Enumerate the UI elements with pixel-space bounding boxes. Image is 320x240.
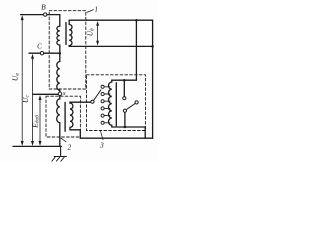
wire upper contact lead xyxy=(123,80,125,96)
wire lower contact lead xyxy=(124,112,126,127)
core T1 xyxy=(65,23,67,45)
wire column to neutral circle xyxy=(59,90,61,92)
wire B input line xyxy=(21,14,60,16)
terminal neutral xyxy=(58,92,62,96)
winding tapped regulating xyxy=(109,82,112,125)
terminal C xyxy=(40,52,43,55)
wire bottom return xyxy=(80,137,152,139)
junction dot top bus xyxy=(135,19,138,22)
svg-text:3: 3 xyxy=(99,141,104,149)
wire tapped winding top lead xyxy=(111,80,113,82)
wire tap line to Edob xyxy=(33,93,58,95)
dimension arrow Uc xyxy=(32,57,34,142)
wire bottom bus xyxy=(13,145,61,147)
svg-text:В: В xyxy=(41,3,46,12)
winding W1 series winding (on B column) xyxy=(57,26,60,45)
winding T1 secondary (e) xyxy=(69,20,72,46)
switch blade pivot xyxy=(135,101,138,104)
wire top bus xyxy=(69,19,152,21)
core T3 xyxy=(115,83,117,126)
tap contact 4 xyxy=(101,107,104,110)
wire main column top xyxy=(59,15,61,26)
wire pivot to booster xyxy=(70,102,91,103)
selector arm pivot xyxy=(91,100,94,103)
dashed box 3 selector xyxy=(87,75,146,131)
winding W2 common winding xyxy=(57,62,60,91)
junction dot C-column xyxy=(59,52,62,55)
selector arm xyxy=(94,90,101,101)
switch blade xyxy=(126,103,135,109)
junction dot right vertical xyxy=(151,45,154,48)
ground xyxy=(54,146,66,156)
wire right vertical outer xyxy=(152,20,154,138)
winding T2 secondary xyxy=(70,103,80,130)
leader 2 xyxy=(61,138,66,142)
wire corner down to return xyxy=(144,127,146,138)
leader 1 xyxy=(87,10,94,13)
junction dot selector feed xyxy=(123,79,126,82)
winding W3 regulating section xyxy=(57,96,60,123)
junction dot lower contact line xyxy=(124,126,127,129)
wire C input line xyxy=(29,52,60,54)
switch lower contact xyxy=(123,109,126,112)
wire booster return down xyxy=(79,130,81,138)
wire lower bus from winding e xyxy=(69,45,152,47)
dimension arrow Uv xyxy=(21,19,23,142)
core T2 xyxy=(64,102,66,131)
tap contact 3 xyxy=(101,100,104,103)
dashed box 1 series transformer xyxy=(49,11,86,89)
terminal B xyxy=(44,13,47,16)
wire column bottom xyxy=(59,123,61,147)
svg-text:2: 2 xyxy=(68,144,72,152)
tap contact 1 xyxy=(101,85,104,88)
dashed box 2 booster transformer xyxy=(46,96,80,137)
wire main column mid xyxy=(59,45,61,61)
leader 3 xyxy=(100,130,103,140)
svg-text:С: С xyxy=(37,42,42,50)
tap contact 6 xyxy=(101,121,104,124)
dimension arrow Edob xyxy=(39,99,41,143)
switch upper contact xyxy=(123,97,126,100)
wire tapped winding bottom lead xyxy=(112,125,145,127)
tap contact 2 xyxy=(101,92,104,95)
wire selector feed horizontal xyxy=(112,79,137,81)
svg-text:1: 1 xyxy=(94,7,97,14)
tap contact 5 xyxy=(101,114,104,117)
voltage arrow Ud xyxy=(97,25,99,43)
wire selector feed vertical xyxy=(135,20,137,80)
